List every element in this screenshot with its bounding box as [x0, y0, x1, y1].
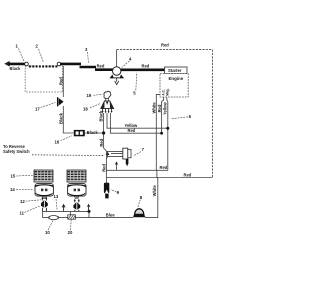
battery positive terminal — [57, 62, 61, 66]
callout 19 — [87, 93, 103, 98]
relay 7 — [123, 148, 131, 166]
clutch body (right) — [68, 184, 86, 199]
reverse switch arrow tap — [106, 152, 110, 158]
callout 7 — [134, 147, 145, 155]
label Red (above fuse 9) — [102, 164, 107, 172]
svg-text:7: 7 — [142, 147, 145, 152]
wire connector 16 to key switch junction — [85, 132, 104, 134]
label Red (line B) — [184, 172, 192, 177]
top rail wire Red — [117, 49, 213, 51]
label Red (solenoid to starter) — [142, 63, 150, 68]
label Red (engine wire) — [157, 104, 162, 112]
battery negative terminal — [25, 62, 29, 66]
engine wire White vertical — [156, 94, 160, 170]
svg-text:Red: Red — [160, 165, 168, 170]
svg-text:15: 15 — [11, 174, 16, 179]
label Red (battery drop wire) — [59, 77, 64, 85]
svg-text:Safety Switch: Safety Switch — [3, 149, 30, 154]
terminal tap (middle) — [62, 204, 66, 212]
wires into relay 7 — [107, 151, 123, 156]
wire junction down (Red) — [104, 135, 107, 184]
svg-text:Black: Black — [59, 112, 64, 124]
svg-text:Starter: Starter — [168, 68, 182, 73]
svg-text:Red: Red — [97, 63, 105, 68]
connector plug 11/12 (left) — [41, 197, 48, 212]
key switch 18/19 — [101, 91, 114, 113]
label Black (fuse drop wire) — [59, 112, 64, 124]
svg-text:Blue: Blue — [106, 212, 116, 217]
wire switch terminal C to red run — [110, 113, 161, 133]
svg-text:5: 5 — [133, 91, 136, 96]
callout 8 — [138, 195, 143, 208]
engine box — [160, 74, 188, 97]
svg-text:Red: Red — [157, 104, 162, 112]
wire upper jumper bus — [43, 210, 89, 212]
svg-text:6: 6 — [189, 114, 192, 119]
callout 3 — [85, 47, 89, 63]
junction dot (jumper) — [88, 210, 91, 213]
connector 16 — [74, 130, 85, 136]
svg-text:Yellow: Yellow — [162, 101, 167, 115]
callout 1 — [16, 44, 25, 62]
svg-text:Black: Black — [87, 130, 99, 135]
svg-text:14: 14 — [10, 187, 15, 192]
svg-text:1: 1 — [16, 44, 19, 49]
label Black (switch wire A) — [98, 110, 103, 122]
label White (engine wire) — [151, 102, 156, 114]
svg-text:White: White — [152, 185, 157, 197]
svg-text:Red: Red — [99, 138, 104, 146]
label Yellow (horizontal run) — [125, 123, 139, 128]
svg-text:10: 10 — [45, 230, 50, 235]
relay 7 stem tap — [115, 161, 118, 170]
buzzer 8 — [133, 209, 145, 218]
engine wire Yellow vertical — [167, 97, 168, 170]
svg-text:16: 16 — [55, 139, 60, 144]
label Yellow (engine wire) — [162, 101, 167, 115]
svg-text:18: 18 — [83, 106, 88, 111]
label Black (connector wire) — [87, 130, 99, 135]
svg-text:8: 8 — [140, 195, 143, 200]
svg-text:12: 12 — [20, 199, 25, 204]
wire fuse to connector 16 — [63, 106, 73, 133]
thick cable solenoid to starter — [121, 68, 165, 71]
clutch label plate (right) — [67, 170, 86, 182]
callout 9 — [111, 189, 120, 195]
battery negative cable step — [80, 67, 113, 70]
svg-text:Black: Black — [10, 66, 22, 71]
svg-text:Red: Red — [184, 172, 192, 177]
svg-text:2: 2 — [36, 44, 39, 49]
ground arrow (chassis) — [5, 62, 11, 66]
wire line A (red run to yellow riser) — [106, 169, 167, 171]
label Blue — [106, 212, 116, 217]
svg-text:Engine: Engine — [169, 76, 184, 81]
wire switch terminal B to yellow run — [107, 113, 168, 128]
junction yellow dot — [166, 127, 169, 130]
battery positive cable (thick Red) — [60, 63, 81, 66]
label Red (line A) — [160, 165, 168, 170]
callout 14 — [10, 187, 34, 192]
junction node A — [102, 131, 105, 134]
connector plug (right) — [73, 199, 80, 212]
svg-text:Red: Red — [161, 43, 169, 48]
label Red (top rail) — [161, 43, 169, 48]
callout 18 — [83, 103, 101, 111]
fuse 10 — [49, 216, 58, 220]
clutch label plate 15 (left) — [34, 170, 53, 182]
wire left drop — [42, 211, 44, 217]
callout 20 — [68, 220, 73, 235]
callout 12 — [20, 199, 41, 204]
wire battery positive down — [62, 66, 64, 97]
wire white drop — [145, 170, 158, 217]
svg-text:19: 19 — [87, 93, 92, 98]
label Red (battery to solenoid) — [97, 63, 105, 68]
callout 10 — [45, 220, 53, 235]
callout 11 — [20, 206, 41, 215]
svg-text:9: 9 — [117, 190, 120, 195]
engine wire Red vertical — [162, 97, 164, 133]
right rail wire — [211, 50, 213, 178]
callout 17 — [35, 103, 56, 112]
fuse holder 17 — [58, 97, 64, 106]
svg-text:20: 20 — [68, 230, 73, 235]
battery B1 — [25, 65, 62, 92]
callout 6 — [171, 114, 192, 119]
svg-text:Red: Red — [59, 77, 64, 85]
engine pin label A.C. — [161, 89, 165, 95]
callout 16 — [55, 136, 73, 145]
label To Reverse Safety Switch — [3, 144, 30, 154]
wire right drop — [88, 211, 90, 217]
junction red dot — [160, 132, 163, 135]
callout 13 — [54, 194, 59, 210]
svg-text:Red: Red — [102, 164, 107, 172]
label White (drop wire) — [152, 185, 157, 197]
wire line B (red run to right rail) — [106, 177, 212, 179]
solenoid U4 — [110, 67, 124, 85]
svg-text:13: 13 — [54, 194, 59, 199]
svg-text:White: White — [151, 102, 156, 114]
wire switch terminal A down to junction — [103, 113, 105, 133]
diode 20 — [68, 211, 76, 219]
clutch body 14 (left) — [35, 184, 53, 199]
callout 15 — [11, 174, 34, 179]
terminal tap (right of plug) — [87, 204, 90, 212]
wire solenoid to top rail — [116, 50, 118, 67]
svg-text:3: 3 — [85, 47, 88, 52]
label Red (horizontal run) — [128, 128, 136, 133]
svg-text:17: 17 — [35, 107, 40, 112]
engine pin label Mag. — [166, 88, 170, 95]
svg-text:11: 11 — [20, 210, 25, 215]
callout 5 — [133, 73, 137, 96]
callout 4 — [122, 56, 132, 67]
svg-text:Red: Red — [128, 128, 136, 133]
svg-text:Mag.: Mag. — [166, 88, 170, 95]
svg-text:4: 4 — [129, 56, 132, 61]
wire blue bus — [43, 217, 133, 219]
callout 2 — [36, 44, 44, 63]
starter box — [165, 67, 187, 74]
label Black (battery cable) — [10, 66, 22, 71]
fuse holder 9 — [104, 183, 109, 199]
svg-text:Red: Red — [142, 63, 150, 68]
battery negative cable (thick Black) — [8, 63, 26, 66]
label Red (below junction) — [99, 138, 104, 146]
svg-text:Black: Black — [98, 110, 103, 122]
wire to reverse safety switch (dashed) — [32, 154, 105, 157]
